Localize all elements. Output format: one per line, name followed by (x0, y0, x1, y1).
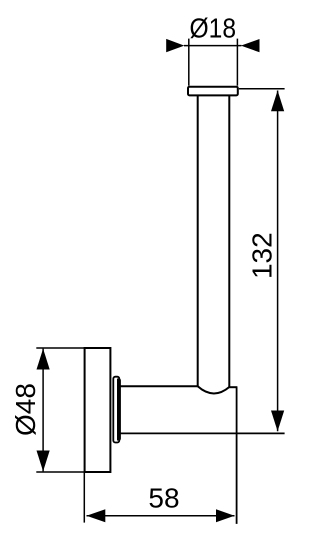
svg-text:132: 132 (246, 232, 277, 279)
svg-text:Ø18: Ø18 (190, 12, 237, 43)
svg-text:Ø48: Ø48 (10, 383, 41, 436)
svg-text:58: 58 (148, 483, 179, 514)
